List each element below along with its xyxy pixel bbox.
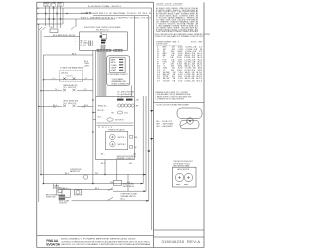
svg-text:«8»: «8» [111,112,114,114]
BLK/WHT labels [156,121,174,128]
svg-text:17 GY-W 18 120 CON–: 17 GY-W 18 120 CON–18 B-14 [157,80,202,82]
svg-text:DOUBLE LINE BREAK RELAY: DOUBLE LINE BREAK RELAY [60,67,84,70]
tick arrows on right wire bundle [147,110,153,153]
wire segment to EOC [44,35,80,37]
vertical drop 4 [56,6,58,28]
svg-text:T-1→: T-1→ [55,89,59,91]
connector strips on EOC bottom edge [97,49,112,52]
fan motor circle [83,175,87,179]
svg-text:CLEAN: CLEAN [111,64,117,67]
logo mark bottom left [46,239,60,247]
transformer inside EOC [84,41,92,47]
svg-text:CONDUCTOR SEE CHART FOR TERMI: CONDUCTOR SEE CHART FOR TERMINAL CODES A… [155,35,205,38]
svg-text:GRY → LATCH ASSY: GRY → LATCH ASSY [156,125,173,128]
svg-text:START: START [111,69,116,72]
vertical left bus 1 [38,24,40,202]
logo strip top line [37,235,154,237]
wire L2 [37,18,115,20]
latch arm line [180,122,188,127]
svg-text:N.O. 240V COIL: N.O. 240V COIL [64,103,77,105]
svg-text:(N.C.): (N.C.) [120,198,125,200]
oven light lamp box [75,190,82,195]
svg-text:→L1: →L1 [83,78,87,80]
broil element label [46,194,60,198]
EOC title [84,26,121,31]
motor box label [173,161,192,168]
EOC left pin rows [81,41,87,47]
drop wires to elements [54,184,57,195]
right column section divider [154,102,205,104]
svg-text:W-3 →: W-3 → [98,117,104,119]
arrows at right [141,183,149,202]
svg-text:W-BK WHITE-BLACK TRACER / BLA: W-BK WHITE-BLACK TRACER / BLANC-NOIR A13 [156,30,198,33]
diagonal switch left [39,27,46,30]
wire labels below box [101,163,132,165]
svg-text:BK-2: BK-2 [65,173,69,175]
wire through DLB [43,79,93,81]
svg-text:LATCH MOTOR: LATCH MOTOR [177,168,190,171]
svg-text:L CONNECTION TO JUNCTION BOX: L CONNECTION TO JUNCTION BOX [156,99,185,101]
diagram box right / title column divider [153,2,155,247]
svg-text:TIMER: TIMER [111,68,117,70]
svg-text:RELAY K4 →: RELAY K4 → [98,104,108,107]
svg-text:N.O. 240V COIL: N.O. 240V COIL [64,87,77,89]
TOD box [50,29,58,33]
logo strip caption [61,239,151,247]
row glyphs [119,59,123,71]
terminal dots [45,7,68,20]
wire y55 [43,54,93,56]
wire L1 wrap right [37,8,152,230]
svg-text:COLORS + COLOR + COULEURS: COLORS + COLOR + COULEURS [156,4,183,6]
svg-text:LIGHT: LIGHT [84,65,89,67]
svg-text:T-4: T-4 [82,107,84,109]
wire gauge table [156,41,203,45]
diagram box top [37,1,154,3]
latch inner box [105,131,127,149]
bits below [176,184,188,186]
svg-text:FAN MOTOR: FAN MOTOR [70,170,81,173]
svg-text:3410W 240V: 3410W 240V [46,197,57,199]
connector pin rows below keyboard [117,91,134,99]
vertical drop 2 [48,6,50,26]
vertical to EOC [62,8,64,24]
terminal block outlines [44,3,64,7]
BROIL relay contacts [39,105,93,108]
circles row [97,104,135,126]
svg-text:N-L GROUNDING TO FRAME — SEE N: N-L GROUNDING TO FRAME — SEE NOTE 4 [88,5,121,8]
vertical right drop [75,19,77,27]
diagonal right [71,27,75,30]
meat probe box [113,180,121,185]
svg-text:P13 L DRYER OV (TB R L2 SU: P13 L DRYER OV (TB R L2 SUPPLY TO EOC P3… [81,17,151,19]
vertical left bus 3 [42,55,44,184]
svg-text:BK→: BK→ [101,154,105,156]
svg-text:W-2: W-2 [95,173,98,175]
svg-text:SWITCH 2: SWITCH 2 [118,144,126,146]
connector blocks (dark) inside EOC [100,35,102,37]
svg-text:COLOR CODE: COLOR CODE [156,44,182,46]
svg-text:P6→▮ R CONN W-2: P6→▮ R CONN W-2 [117,95,132,98]
minimum supply note [156,92,193,101]
labels [120,194,137,201]
vertical drop 3 [53,6,55,28]
svg-text:R→P3: R→P3 [81,45,86,47]
junction dots left bus [92,99,93,132]
svg-text:BK-3: BK-3 [101,163,105,165]
DLB relay dashed box [60,71,83,82]
multi-wire band EOC to latch box [100,52,106,96]
svg-text:BK-8 MAIN RELAY (BK-7)A: BK-8 MAIN RELAY (BK-7)A [53,34,76,37]
svg-text:BK-4: BK-4 [95,188,99,190]
motor circle 1 [175,173,183,181]
svg-text:BK-2 W →: BK-2 W → [98,110,106,112]
vertical drop 5 [60,6,62,28]
convection fan label [70,169,82,173]
BK-8 oven light label [84,61,90,67]
svg-text:B-6 BROILER SW T-6 W NEUTRA: B-6 BROILER SW T-6 W NEUTRAL TO EOC P2 W… [81,12,152,15]
wire N wrap right [93,16,149,201]
svg-text:COIL: COIL [124,112,128,114]
title box inner line [154,229,205,231]
page left border [36,2,38,247]
ribbon below bar [101,45,105,49]
DLB contact 2 [73,77,76,80]
page bottom border [37,247,204,249]
dark text rows [59,199,70,204]
svg-text:BROIL: BROIL [111,62,116,64]
latch cam dot [189,120,191,122]
svg-text:OVEN DOOR LATCH: OVEN DOOR LATCH [108,129,125,132]
transformer outline inside EOC [102,35,107,39]
junction circles pair [86,12,91,14]
DLB relay header [60,67,84,70]
stubs into latch box [93,113,96,120]
BROIL relay label [64,100,79,105]
svg-text:L1→: L1→ [53,78,57,80]
svg-text:CONTROL & SERVICING MUST BE DO: CONTROL & SERVICING MUST BE DONE BY A QU… [61,240,151,243]
top terminal labels [37,2,152,26]
svg-text:→T-2: →T-2 [82,89,86,91]
motor circle 2 [184,173,192,181]
verticals below latch box [105,160,117,181]
dark text rows (touch panel) [112,78,130,85]
fuse / TOD component [39,24,80,202]
svg-text:STYLE USE: STYLE USE [191,41,203,43]
BAKE relay contacts [41,89,93,92]
hi-limit switch diagonals [72,188,149,201]
glyphs right of inner box [129,136,132,149]
page right border [203,2,205,247]
svg-text:CAUTION : EL CIRCUITO USE AVAN: CAUTION : EL CIRCUITO USE AVANT D ENTRET… [61,243,151,246]
svg-text:SWITCH 1: SWITCH 1 [118,137,126,139]
glyph row top [117,99,133,101]
svg-text:CONN P12: CONN P12 [59,202,68,204]
svg-text:K1 N.O.: K1 N.O. [67,76,74,78]
vertical left bus 2 [40,30,42,175]
bake element labels [55,184,63,189]
svg-text:BOARD CONNECTOR: BOARD CONNECTOR [112,82,130,85]
svg-text:DOOR LOCK MOTOR AND SWITCH ASS: DOOR LOCK MOTOR AND SWITCH ASSY [157,104,191,107]
junction dot [43,183,45,185]
title box top line [154,236,205,238]
element outline box [62,189,70,197]
svg-text:EVGA DA: EVGA DA [46,243,60,247]
wire labels [63,173,133,190]
svg-text:BK-8: BK-8 [72,53,76,55]
DLB contact 1 [63,77,66,80]
latch assembly rounded shapes [177,108,202,129]
wire ground [37,23,63,25]
wire N [37,13,88,15]
long vertical wires center [93,16,146,192]
svg-text:P2 KEYBOARD CONN P3: P2 KEYBOARD CONN P3 [108,73,128,76]
wire A [41,174,146,176]
svg-text:W-6: W-6 [110,182,113,184]
svg-text:318046235 REV:A: 318046235 REV:A [162,239,201,244]
wire C [58,189,113,191]
BAKE relay label [64,84,78,89]
svg-text:W-4: W-4 [129,163,132,165]
EOC box [80,32,128,51]
dark LATCH MOTOR text [117,155,137,160]
svg-text:ASSEMBLY CONN P9: ASSEMBLY CONN P9 [117,157,134,160]
svg-text:DLB (K1): DLB (K1) [61,73,68,75]
svg-text:P10 (EOC) P11: P10 (EOC) P11 [96,29,109,31]
wire B [43,183,143,185]
svg-text:T-3: T-3 [53,107,55,109]
bake element box [58,189,62,192]
svg-text:DISCONNECT POWER BEFORE SERVIC: DISCONNECT POWER BEFORE SERVICING UNIT. [61,239,137,241]
broil element dark box [59,195,65,200]
svg-text:MOTOR W: MOTOR W [115,119,124,121]
svg-text:RECEPTACLE: RECEPTACLE [123,185,135,188]
vertical drop 1 [45,6,47,26]
